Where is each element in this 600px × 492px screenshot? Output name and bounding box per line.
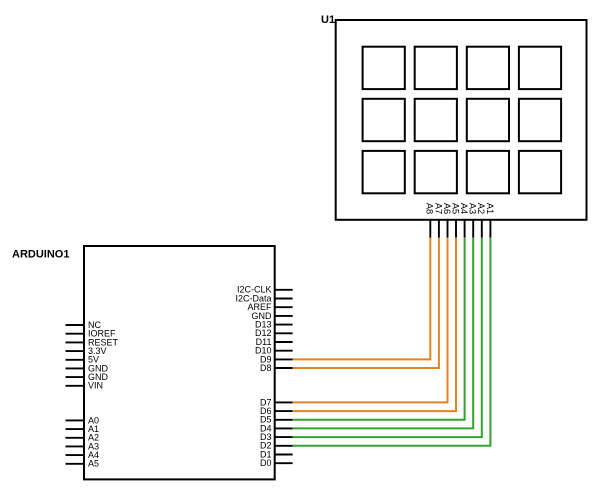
pin D8: [275, 367, 293, 369]
pin D1: [275, 454, 293, 456]
pin A8: [429, 220, 431, 238]
pin A2 (arduino): [66, 437, 85, 439]
pin A4 (arduino): [66, 454, 85, 456]
pin GND (right): [275, 315, 293, 317]
svg-text:D8: D8: [260, 363, 272, 373]
pin D0: [275, 462, 293, 464]
pin D4: [275, 427, 293, 429]
svg-text:A2: A2: [476, 203, 486, 214]
pin A3 (arduino): [66, 445, 85, 447]
pin VIN: [66, 385, 85, 387]
svg-text:A6: A6: [442, 203, 452, 214]
pin I2C-Data: [275, 298, 293, 300]
pin A7: [438, 220, 440, 238]
pin A2: [481, 220, 483, 238]
svg-text:A7: A7: [433, 203, 443, 214]
keypad U1 buttons: [363, 47, 562, 194]
svg-text:U1: U1: [321, 14, 335, 26]
pin D9: [275, 358, 293, 360]
svg-text:A5: A5: [450, 203, 460, 214]
pin 5V: [66, 359, 85, 361]
arduino ARDUINO1 body: [84, 246, 275, 479]
pin A1 (arduino): [66, 428, 85, 430]
pin D5: [275, 419, 293, 421]
pin 3.3V: [66, 350, 85, 352]
pin NC: [66, 324, 85, 326]
pin D7: [275, 401, 293, 403]
pin AREF: [275, 306, 293, 308]
pin D12: [275, 332, 293, 334]
wire D5 to A4 (green): [293, 238, 465, 420]
pin A5 (arduino): [66, 463, 85, 465]
wire D9 to A8 (orange): [293, 238, 431, 360]
pin A6: [447, 220, 449, 238]
pin D13: [275, 324, 293, 326]
pin A1: [489, 220, 491, 238]
pin D10: [275, 350, 293, 352]
svg-text:D0: D0: [260, 458, 272, 468]
pin D11: [275, 341, 293, 343]
keypad U1 body: [336, 20, 587, 220]
pin RESET: [66, 341, 85, 343]
wire D2 to A1 (green): [293, 238, 491, 446]
pin A3: [472, 220, 474, 238]
pin IOREF: [66, 333, 85, 335]
pin A4: [464, 220, 466, 238]
pin D6: [275, 410, 293, 412]
svg-text:VIN: VIN: [88, 381, 103, 391]
svg-text:A3: A3: [468, 203, 478, 214]
pin GND (left lower): [66, 376, 85, 378]
wire D6 to A5 (orange): [293, 238, 456, 411]
svg-text:A5: A5: [88, 459, 99, 469]
svg-text:A8: A8: [425, 203, 435, 214]
pin A0: [66, 419, 85, 421]
svg-text:ARDUINO1: ARDUINO1: [12, 249, 69, 261]
svg-text:A1: A1: [485, 203, 495, 214]
wire D4 to A3 (green): [293, 238, 474, 429]
pin GND (left upper): [66, 367, 85, 369]
pin A5: [455, 220, 457, 238]
wire D8 to A7 (orange): [293, 238, 439, 368]
pin D3: [275, 436, 293, 438]
svg-text:A4: A4: [459, 203, 469, 214]
pin I2C-CLK: [275, 289, 293, 291]
wire D3 to A2 (green): [293, 238, 482, 437]
pin D2: [275, 445, 293, 447]
wire D7 to A6 (orange): [293, 238, 448, 403]
